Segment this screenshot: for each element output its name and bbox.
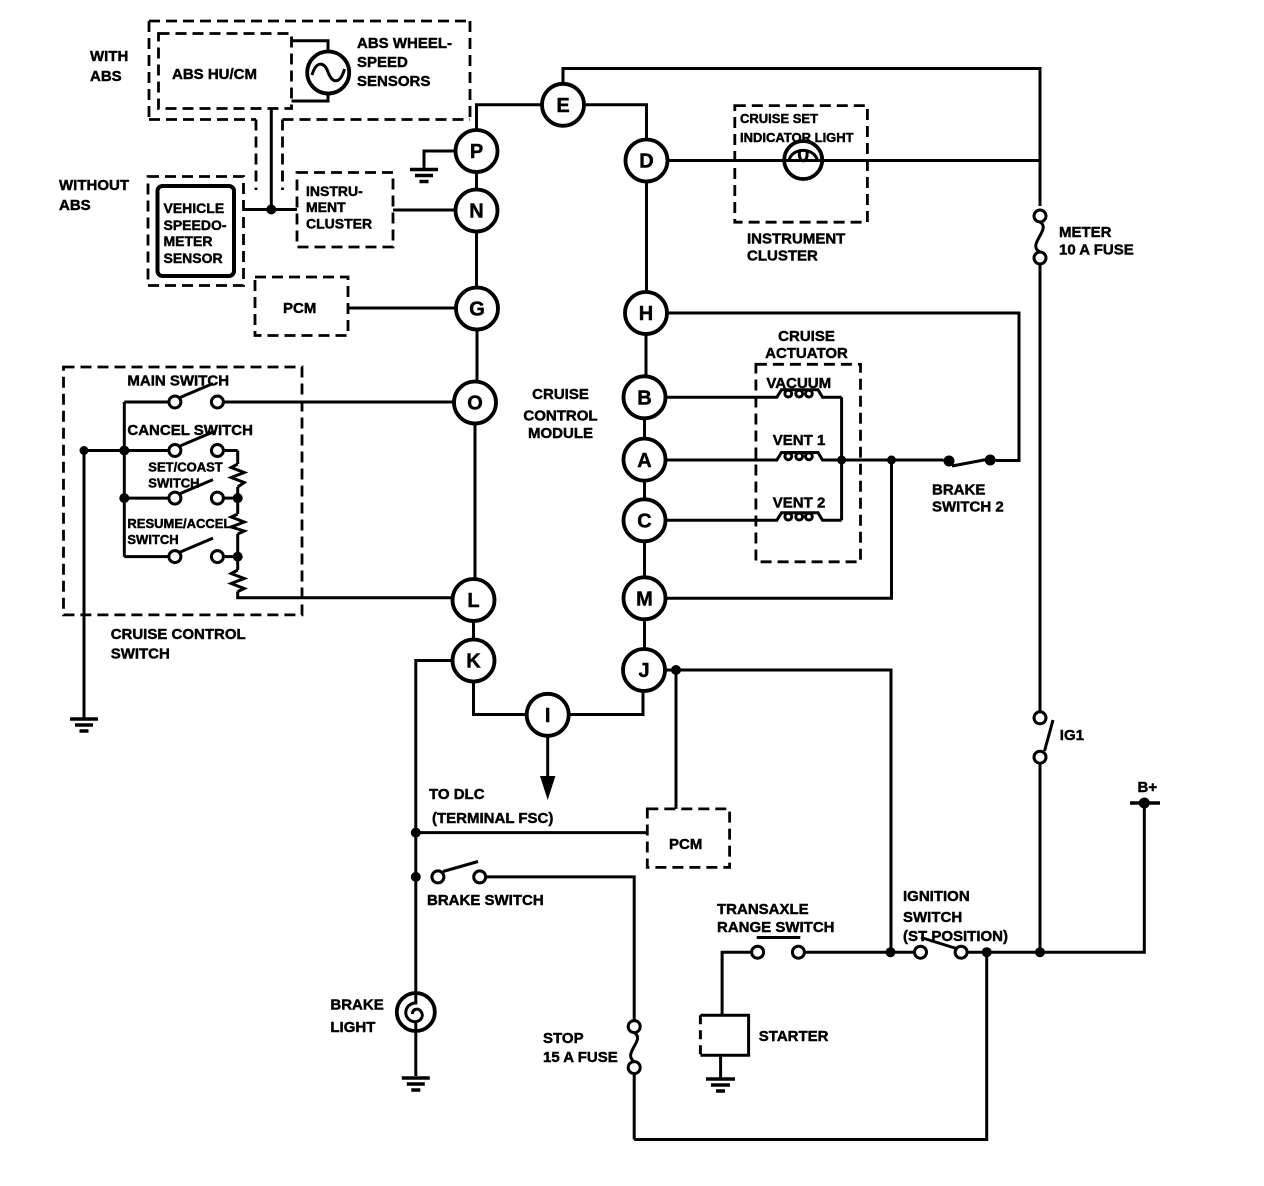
svg-text:WITH: WITH — [90, 48, 128, 65]
svg-text:LIGHT: LIGHT — [330, 1019, 375, 1036]
svg-text:INSTRU-: INSTRU- — [306, 183, 363, 199]
svg-text:K: K — [466, 651, 481, 673]
svg-text:B: B — [637, 388, 651, 410]
svg-text:C: C — [637, 511, 651, 533]
svg-text:MAIN SWITCH: MAIN SWITCH — [127, 373, 229, 390]
svg-text:SWITCH: SWITCH — [903, 909, 962, 926]
svg-text:CRUISE CONTROL: CRUISE CONTROL — [111, 626, 246, 643]
svg-text:ABS: ABS — [90, 68, 122, 85]
svg-text:CRUISE: CRUISE — [532, 386, 589, 403]
svg-text:INSTRUMENT: INSTRUMENT — [747, 231, 845, 248]
svg-text:SPEEDO-: SPEEDO- — [164, 217, 227, 233]
svg-text:CLUSTER: CLUSTER — [306, 216, 372, 232]
svg-text:SENSOR: SENSOR — [164, 250, 223, 266]
svg-text:WITHOUT: WITHOUT — [59, 177, 129, 194]
svg-text:SWITCH: SWITCH — [111, 646, 170, 663]
svg-text:STARTER: STARTER — [759, 1028, 829, 1045]
svg-text:RANGE SWITCH: RANGE SWITCH — [717, 919, 835, 936]
svg-text:(ST POSITION): (ST POSITION) — [903, 928, 1008, 945]
svg-text:TRANSAXLE: TRANSAXLE — [717, 901, 809, 918]
svg-text:PCM: PCM — [283, 300, 316, 317]
svg-text:VEHICLE: VEHICLE — [164, 200, 225, 216]
svg-text:I: I — [545, 705, 551, 727]
svg-text:ABS HU/CM: ABS HU/CM — [172, 66, 257, 83]
svg-text:IGNITION: IGNITION — [903, 888, 970, 905]
svg-text:RESUME/ACCEL: RESUME/ACCEL — [127, 516, 231, 531]
svg-text:15 A FUSE: 15 A FUSE — [543, 1049, 618, 1066]
svg-text:METER: METER — [164, 233, 213, 249]
svg-text:VENT 2: VENT 2 — [773, 495, 826, 512]
svg-text:PCM: PCM — [669, 836, 702, 853]
svg-text:INDICATOR LIGHT: INDICATOR LIGHT — [740, 130, 854, 145]
svg-text:E: E — [556, 95, 569, 117]
svg-text:O: O — [467, 393, 483, 415]
svg-text:SET/COAST: SET/COAST — [148, 460, 222, 475]
svg-text:CRUISE: CRUISE — [778, 328, 835, 345]
svg-text:H: H — [639, 303, 653, 325]
svg-text:SWITCH: SWITCH — [127, 532, 178, 547]
svg-text:ACTUATOR: ACTUATOR — [765, 345, 848, 362]
svg-text:MENT: MENT — [306, 199, 346, 215]
svg-text:10 A FUSE: 10 A FUSE — [1059, 242, 1134, 259]
svg-text:B+: B+ — [1138, 779, 1158, 796]
svg-text:IG1: IG1 — [1060, 727, 1084, 744]
svg-text:CANCEL SWITCH: CANCEL SWITCH — [127, 422, 253, 439]
svg-text:TO DLC: TO DLC — [429, 786, 485, 803]
svg-text:VENT 1: VENT 1 — [773, 432, 826, 449]
svg-text:METER: METER — [1059, 224, 1112, 241]
svg-text:M: M — [636, 589, 653, 611]
svg-text:ABS WHEEL-: ABS WHEEL- — [357, 35, 452, 52]
svg-text:A: A — [637, 450, 651, 472]
svg-text:G: G — [469, 299, 485, 321]
svg-text:MODULE: MODULE — [528, 425, 593, 442]
svg-text:D: D — [639, 151, 653, 173]
svg-text:L: L — [467, 590, 479, 612]
svg-text:CRUISE SET: CRUISE SET — [740, 111, 818, 126]
svg-text:SWITCH 2: SWITCH 2 — [932, 499, 1004, 516]
svg-text:BRAKE: BRAKE — [932, 482, 985, 499]
svg-text:BRAKE: BRAKE — [330, 997, 383, 1014]
svg-text:CLUSTER: CLUSTER — [747, 248, 818, 265]
svg-text:STOP: STOP — [543, 1030, 584, 1047]
svg-text:SPEED: SPEED — [357, 54, 408, 71]
svg-text:CONTROL: CONTROL — [523, 408, 597, 425]
svg-text:P: P — [470, 141, 483, 163]
svg-text:J: J — [638, 660, 649, 682]
svg-text:(TERMINAL FSC): (TERMINAL FSC) — [432, 810, 553, 827]
svg-text:SENSORS: SENSORS — [357, 73, 430, 90]
svg-text:ABS: ABS — [59, 197, 91, 214]
svg-text:N: N — [469, 201, 483, 223]
svg-text:BRAKE SWITCH: BRAKE SWITCH — [427, 892, 544, 909]
